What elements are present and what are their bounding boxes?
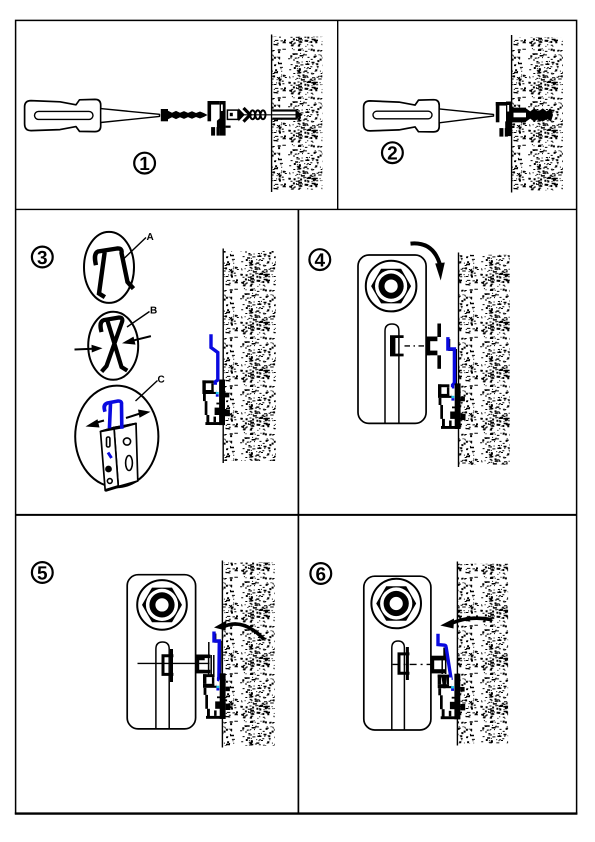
- screw panel 1 (thread): [168, 111, 208, 120]
- svg-text:3: 3: [37, 248, 48, 269]
- bracket 3D view in C: [101, 424, 138, 491]
- centre dash-dot line panel 4: [405, 345, 427, 347]
- screwdriver panel 1: [25, 99, 160, 131]
- vertical divider middle+bottom rows: [297, 209, 299, 813]
- plug ribs panel 1: [250, 110, 265, 119]
- radiator hanging lug panel 4: [426, 324, 441, 369]
- step number 2: [382, 142, 403, 164]
- svg-text:1: 1: [139, 154, 150, 175]
- svg-text:C: C: [158, 375, 165, 386]
- bracket tongue panel 6: [431, 656, 445, 674]
- wall plug (anchor) panel 1: [227, 108, 250, 122]
- blue clip panel 5: [214, 633, 221, 679]
- wall panel 4: [459, 253, 510, 468]
- radiator bushing outer circles panel 4: [366, 261, 417, 312]
- radiator bushing outer circles panel 5: [137, 580, 187, 630]
- wall panel 3: [223, 249, 275, 464]
- blue spring clip in C: [104, 401, 122, 427]
- squeeze arrow right (panel 3): [122, 336, 151, 345]
- press arrow panel 5: [214, 621, 264, 640]
- blue clip on wall bracket (panel 3): [211, 336, 218, 383]
- screw panel 1 (head): [161, 109, 168, 121]
- release arrow left in C: [86, 419, 105, 427]
- bracket tongue panel 5: [196, 642, 214, 677]
- squeeze arrow left (panel 3): [75, 345, 103, 353]
- label C with leader: [136, 375, 165, 402]
- centre dash-dot line panel 6: [393, 663, 435, 665]
- blue clip panel 6 (pressed): [438, 635, 451, 678]
- slot insert piece panel 6: [399, 647, 409, 680]
- wall panel 1: [272, 35, 323, 193]
- ellipse detail C: [75, 386, 158, 488]
- svg-text:5: 5: [37, 563, 48, 584]
- radiator bushing outer circles panel 6: [371, 579, 421, 629]
- svg-text:2: 2: [387, 144, 398, 165]
- spring clip state A: [95, 248, 132, 296]
- blue clip panel 4: [448, 339, 456, 387]
- wall bracket panel 4: [438, 383, 466, 429]
- radiator section panel 4: [358, 255, 426, 423]
- wall panel 6: [457, 562, 508, 746]
- radiator section panel 5: [127, 575, 195, 729]
- radiator nut (hexagon) panel 5: [0, 0, 1, 1]
- svg-text:A: A: [147, 232, 154, 243]
- wall bracket panel 5: [203, 673, 231, 719]
- radiator lug hooked on tongue panel 6: [433, 659, 440, 672]
- svg-text:4: 4: [315, 250, 326, 271]
- snap arrow panel 6: [440, 618, 492, 628]
- ellipse detail B: [88, 312, 138, 380]
- centre line panel 5: [138, 662, 210, 664]
- radiator slot channel panel 4: [385, 324, 399, 423]
- vertical divider top row: [337, 20, 339, 209]
- step number 5: [32, 562, 53, 584]
- step number 4: [309, 249, 330, 271]
- blue clip leg seen through side slot in C: [108, 453, 112, 459]
- radiator nut (hexagon) panel 4: [0, 0, 1, 1]
- radiator slot channel panel 5: [156, 642, 169, 729]
- slot insert bracket panel 4: [391, 337, 403, 355]
- release arrow right in C: [126, 410, 151, 419]
- bracket 3D holes in C: [105, 437, 132, 491]
- drilled hole with plug tip (panel 1): [238, 109, 303, 119]
- svg-text:6: 6: [316, 564, 327, 585]
- horizontal divider row2/row3: [16, 514, 577, 516]
- wall panel 5: [222, 561, 274, 748]
- horizontal divider row1/row2: [16, 208, 577, 210]
- label A with leader: [124, 232, 154, 259]
- wall bracket panel 1: [208, 101, 231, 136]
- svg-text:B: B: [150, 306, 157, 317]
- step number 1: [134, 153, 155, 175]
- radiator slot channel panel 6: [392, 641, 405, 730]
- wall bracket panel 2: [496, 102, 515, 137]
- slot insert piece panel 5: [163, 649, 173, 682]
- label B with leader: [127, 306, 157, 328]
- step number 3: [32, 247, 53, 269]
- radiator nut (hexagon) panel 6: [0, 0, 1, 1]
- ellipse detail A: [84, 232, 134, 303]
- screwdriver panel 2: [364, 100, 494, 132]
- rotate arrow panel 4: [411, 243, 445, 280]
- radiator section panel 6: [364, 576, 431, 730]
- radiator lug hooked on tongue panel 5: [198, 659, 205, 672]
- step number 6: [310, 563, 331, 585]
- spring clip state B (squeezed): [100, 318, 125, 371]
- screw+plug silhouette inside wall panel 2: [512, 108, 553, 123]
- wall bracket panel 6: [438, 674, 465, 720]
- wall bracket mounted (panel 3): [202, 380, 230, 426]
- wall panel 2: [512, 35, 563, 193]
